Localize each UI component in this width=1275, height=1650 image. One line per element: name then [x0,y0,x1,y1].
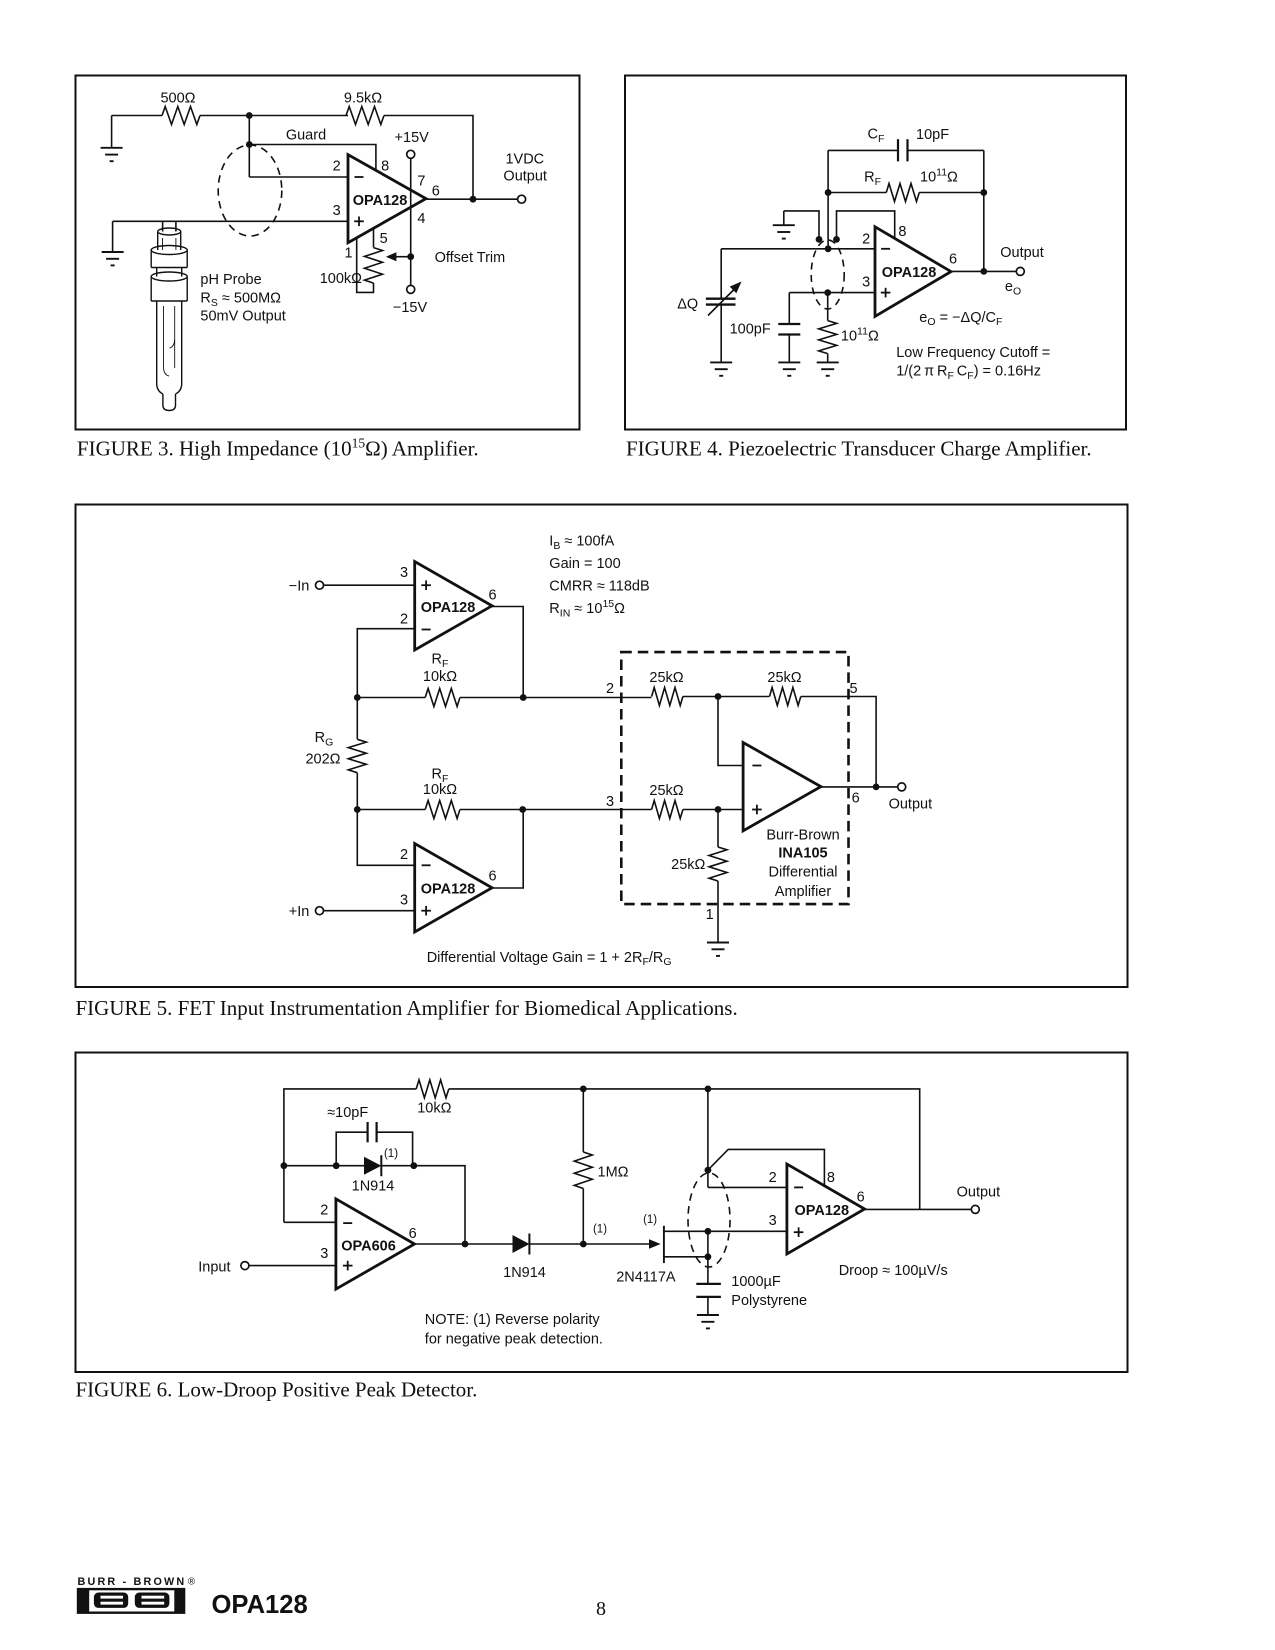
wire guard vertical fig6 [707,1089,709,1188]
diode D2 1N914 [513,1234,530,1255]
wire pin 3 [113,220,348,222]
svg-text:2: 2 [606,681,614,697]
svg-text:Input: Input [198,1260,230,1276]
resistor R 1M&#937; [574,1089,592,1244]
svg-text:INA105: INA105 [778,846,827,862]
svg-text:8: 8 [596,1598,606,1620]
ground (input R) [817,362,839,375]
wire RF1 right [460,697,652,699]
svg-text:Differential Voltage Gain = 1: Differential Voltage Gain = 1 + 2RF/RG [427,950,672,968]
wire input to R1 [112,115,162,117]
logo BB box [77,1588,186,1614]
node JFET drain [705,1228,712,1235]
svg-text:3: 3 [606,794,614,810]
svg-text:Low Frequency Cutoff =: Low Frequency Cutoff = [896,345,1050,361]
wire ground to guard ring [784,211,819,240]
wire pin 3 fig4 [789,292,875,294]
svg-text:NOTE: (1) Reverse polarity: NOTE: (1) Reverse polarity [425,1312,601,1328]
svg-text:8: 8 [827,1170,835,1186]
wire U2 output [951,270,1016,272]
node RF1 right [520,694,527,701]
svg-text:2: 2 [862,231,870,247]
U1 minus sign [355,176,364,178]
svg-text:Droop ≈ 100µV/s: Droop ≈ 100µV/s [839,1263,948,1279]
node RF2 right [519,806,526,813]
node offset trim wiper [407,253,414,260]
wire pin 2 [249,176,348,178]
node guard top fig6 [705,1086,712,1093]
ground (input divider) [101,116,123,162]
op-amp U2 OPA128 [875,227,951,317]
svg-text:9.5kΩ: 9.5kΩ [344,91,382,107]
svg-text:Output: Output [889,797,933,813]
pH probe [151,221,187,410]
svg-text:1: 1 [344,246,352,262]
svg-text:500Ω: 500Ω [160,91,195,107]
U6 minus sign [343,1222,352,1224]
resistor 25k&#937; C [652,801,683,819]
svg-text:FIGURE 3. High Impedance (1015: FIGURE 3. High Impedance (1015Ω) Amplifi… [77,436,479,461]
ground (INA ref) [707,943,729,956]
svg-text:Guard: Guard [286,128,326,144]
node 25k junction top [715,693,722,700]
op-amp U7 OPA128 [787,1164,865,1254]
svg-text:5: 5 [849,681,857,697]
svg-text:3: 3 [320,1246,328,1262]
svg-text:(1): (1) [384,1148,398,1160]
resistor RF1 10k&#937; [425,689,460,707]
pot wiper arrow [386,252,411,261]
ground (1000&#181;F) [697,1315,719,1328]
wire -In to U3 [324,584,415,586]
svg-text:10pF: 10pF [916,127,949,143]
svg-text:Differential: Differential [768,865,837,881]
svg-text:2N4117A: 2N4117A [616,1270,676,1286]
svg-text:≈10pF: ≈10pF [327,1105,368,1121]
svg-text:3: 3 [400,893,408,909]
svg-text:1MΩ: 1MΩ [598,1165,629,1181]
svg-text:−In: −In [289,579,310,595]
wire 25kB to output [801,697,876,787]
svg-text:8: 8 [381,158,389,174]
wire U4 output [492,810,523,889]
svg-text:6: 6 [852,791,860,807]
figure 6 frame [76,1053,1128,1373]
node cap left [333,1162,340,1169]
wire pin 3 U7 [708,1230,787,1232]
svg-text:3: 3 [400,565,408,581]
transducer &#916;Q [706,249,745,363]
ground (transducer) [710,362,732,375]
U7 minus sign [794,1186,803,1188]
terminal output fig6 [971,1205,979,1213]
INA105 dashed box [621,652,848,904]
node guard tap [246,141,253,148]
resistor R2 9.5k&#937; [346,107,384,125]
svg-text:25kΩ: 25kΩ [649,670,683,686]
wire 25kA to 25kB [683,696,770,698]
svg-text:100kΩ: 100kΩ [320,271,362,287]
resistor R 10k&#937; fig6 [416,1080,449,1098]
resistor RG 202&#937; [348,698,366,810]
node pin 3 junction [824,289,831,296]
svg-text:pH Probe: pH Probe [200,272,261,288]
svg-text:6: 6 [857,1189,865,1205]
terminal output fig4 [1016,267,1024,275]
U1 plus sign [354,217,364,227]
svg-text:3: 3 [333,203,341,219]
node JFET source [705,1253,712,1260]
node guard fig6 [705,1167,712,1174]
svg-text:2: 2 [333,158,341,174]
svg-text:Amplifier: Amplifier [775,884,832,900]
wire U7 output [865,1208,972,1210]
U3 minus sign [422,629,431,631]
wire guard to pin 8 fig6 [708,1149,825,1186]
figure 4 frame [625,76,1126,430]
svg-text:25kΩ: 25kΩ [671,857,705,873]
U7 plus sign [794,1227,804,1237]
wire U6 pin2 riser [284,1089,416,1222]
wire 10k to 1M node [449,1088,584,1090]
svg-text:FIGURE 4. Piezoelectric Transd: FIGURE 4. Piezoelectric Transducer Charg… [626,437,1092,461]
U6 plus sign [343,1261,353,1271]
node 1M bottom [580,1241,587,1248]
node diode right [410,1162,417,1169]
wire U6 pin2 [284,1221,336,1223]
svg-text:OPA128: OPA128 [882,265,937,281]
ground (pH probe shield) [102,221,124,265]
node diode branch [281,1162,288,1169]
resistor 25k&#937; B [770,688,801,706]
node feedback junction [246,112,253,119]
terminal -15V [407,285,415,293]
U5 minus sign [752,765,761,767]
svg-text:6: 6 [409,1226,417,1242]
svg-text:5: 5 [380,231,388,247]
svg-text:2: 2 [320,1203,328,1219]
node output fig4 [980,268,987,275]
node output fig5 [873,784,880,791]
svg-text:BURR - BROWN: BURR - BROWN [78,1576,185,1588]
wire +15V to -15V [410,158,412,285]
op-amp U6 OPA606 [336,1199,415,1289]
wire feedback vertical [248,116,250,178]
wire to diode D1 [284,1165,364,1167]
wire guard to pin 8 fig4 [837,211,895,240]
node U6 output [462,1241,469,1248]
ground (guard) fig4 [773,211,795,239]
svg-text:3: 3 [769,1213,777,1229]
node RF1 left [354,694,361,701]
svg-text:Output: Output [957,1185,1001,1201]
svg-text:FIGURE 5. FET Input Instrument: FIGURE 5. FET Input Instrumentation Ampl… [76,996,738,1020]
wire pin 1 to pot [357,239,374,293]
svg-text:2: 2 [400,847,408,863]
svg-text:25kΩ: 25kΩ [767,670,801,686]
node RF right [980,189,987,196]
svg-text:8: 8 [898,224,906,240]
svg-text:7: 7 [417,173,425,189]
wire 25kC to plus [683,809,743,811]
svg-text:®: ® [188,1577,196,1588]
wire U6 output [415,1243,513,1245]
svg-text:Output: Output [503,169,547,185]
node 1M top [580,1086,587,1093]
svg-text:10kΩ: 10kΩ [417,1101,451,1117]
svg-text:Gain = 100: Gain = 100 [549,556,620,572]
node pin 2 junction [825,245,832,252]
terminal output fig5 [898,783,906,791]
U2 plus sign [881,288,891,298]
U2 minus sign [881,248,890,250]
wire drain-source tie [707,1231,709,1257]
svg-text:3: 3 [862,275,870,291]
JFET arrow [649,1239,661,1248]
wire U5 output [821,786,898,788]
resistor RF 10^11&#937; [886,184,919,202]
U3 plus sign [421,580,431,590]
svg-text:1N914: 1N914 [503,1265,546,1281]
wire D2 to JFET [529,1243,650,1245]
svg-text:6: 6 [488,588,496,604]
svg-text:+In: +In [289,904,310,920]
capacitor CF 10pF [898,139,908,161]
svg-text:for negative peak detection.: for negative peak detection. [425,1332,603,1348]
node guard left [816,236,823,243]
svg-text:OPA128: OPA128 [421,600,476,616]
wire U4 pin2 [357,810,414,866]
wire CF right [908,149,984,151]
svg-text:2: 2 [400,612,408,628]
wire +In to U4 [324,910,415,912]
wire RF right [919,192,984,194]
terminal Input [241,1262,249,1270]
diode D1 1N914 [364,1155,381,1176]
wire feedback right vertical [983,150,985,271]
svg-text:Polystyrene: Polystyrene [731,1293,807,1309]
svg-text:CMRR ≈ 118dB: CMRR ≈ 118dB [549,579,649,595]
resistor RF2 10k&#937; [425,801,460,819]
wire U3 output [492,607,523,698]
capacitor C 10pF fig6 [336,1122,412,1166]
terminal output [518,195,526,203]
transistor Q1 2N4117A [664,1226,708,1263]
figure 3 frame [76,76,580,430]
guard ring ellipse [218,145,282,236]
wire pin 2 U7 [708,1186,787,1188]
node 25k junction bottom [715,806,722,813]
wire guard to pin 8 [249,145,376,171]
op-amp U5 INA105 [743,743,821,831]
svg-text:10kΩ: 10kΩ [423,782,457,798]
svg-text:(1): (1) [593,1224,607,1236]
svg-text:Output: Output [1000,245,1044,261]
resistor 25k&#937; A [652,688,683,706]
svg-text:OPA128: OPA128 [421,882,476,898]
svg-text:202Ω: 202Ω [305,752,340,768]
U4 minus sign [422,864,431,866]
svg-text:1N914: 1N914 [352,1179,395,1195]
svg-text:ΔQ: ΔQ [677,297,698,313]
wire U3 pin2 [357,629,414,698]
svg-text:2: 2 [769,1170,777,1186]
svg-text:25kΩ: 25kΩ [649,783,683,799]
resistor R1 500&#937; [162,107,200,125]
svg-text:(1): (1) [643,1214,657,1226]
svg-text:10kΩ: 10kΩ [423,669,457,685]
wire R1 to R2 [200,115,348,117]
svg-text:6: 6 [488,869,496,885]
wire Input to U6 [249,1265,336,1267]
wire D1 to output [381,1166,465,1244]
terminal -In [316,581,324,589]
capacitor 100pF [778,293,800,363]
op-amp U1 OPA128 [348,155,426,243]
node RF2 left [354,806,361,813]
wire U1 output [426,198,517,200]
wire CF left [828,149,898,151]
wire RF1 left [357,697,425,699]
svg-text:4: 4 [417,211,425,227]
svg-text:FIGURE 6. Low-Droop Positive P: FIGURE 6. Low-Droop Positive Peak Detect… [76,1378,478,1402]
wire top to output fig6 [708,1089,920,1210]
terminal +In [316,907,324,915]
guard ring ellipse fig6 [688,1173,730,1267]
capacitor 1000&#181;F [696,1257,721,1315]
wire RF2 left [357,809,425,811]
wire pin 5 stub [373,229,375,248]
wire RF2 right [460,809,652,811]
resistor R 10^11&#937; input [819,293,837,363]
node RF left [825,189,832,196]
potentiometer 100k&#937; [365,248,383,284]
resistor 25k&#937; D [709,810,727,943]
svg-text:1: 1 [706,907,714,923]
node output junction [470,196,477,203]
svg-text:OPA128: OPA128 [353,193,408,209]
U5 plus sign [752,805,762,815]
svg-text:+15V: +15V [395,130,430,146]
guard ring ellipse fig4 [811,240,844,309]
svg-text:6: 6 [949,252,957,268]
node guard right [833,236,840,243]
wire RF left [828,192,886,194]
svg-text:Burr-Brown: Burr-Brown [766,827,839,843]
svg-text:OPA606: OPA606 [341,1239,396,1255]
svg-text:100pF: 100pF [730,322,771,338]
svg-text:OPA128: OPA128 [795,1203,850,1219]
svg-text:1VDC: 1VDC [505,152,544,168]
svg-text:6: 6 [432,183,440,199]
figure 5 frame [76,505,1128,988]
svg-text:−15V: −15V [393,300,428,316]
svg-text:OPA128: OPA128 [212,1591,308,1619]
op-amp U3 OPA128 [415,562,492,651]
svg-text:Offset Trim: Offset Trim [435,250,506,266]
terminal +15V [407,150,415,158]
svg-text:1000µF: 1000µF [731,1274,781,1290]
wire pin 2 fig4 [721,248,875,250]
ground (100pF) [778,362,800,375]
op-amp U4 OPA128 [415,844,492,933]
svg-text:50mV Output: 50mV Output [200,309,285,325]
U4 plus sign [421,906,431,916]
wire minus jog INA [718,697,743,766]
wire R2 to output node [384,116,473,200]
wire 1M node to guard node [583,1088,708,1090]
wire feedback left vertical [827,150,829,248]
